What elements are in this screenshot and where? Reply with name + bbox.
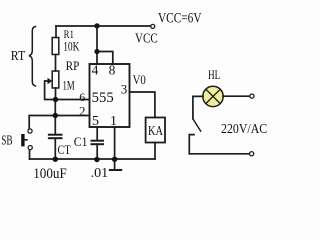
- node VCC terminal: [151, 24, 155, 28]
- wire node A to node B: [54, 100, 56, 116]
- capacitor CT plates: [49, 134, 62, 136]
- wire bottom 220V: [189, 153, 249, 155]
- junction dot C1 rail: [94, 157, 99, 162]
- wire SB to bottom rail: [29, 150, 31, 159]
- wire node B down to CT: [54, 116, 56, 135]
- junction dot pin1 rail: [112, 157, 117, 162]
- wire R1 to RP: [55, 55, 57, 72]
- switch lower contact: [189, 135, 194, 154]
- svg-text:RT: RT: [11, 48, 26, 63]
- svg-text:.01: .01: [91, 166, 109, 181]
- ground: [114, 159, 116, 170]
- junction node B: [53, 113, 58, 118]
- svg-text:V0: V0: [133, 72, 146, 87]
- svg-text:8: 8: [109, 62, 116, 77]
- wire RP wiper arrow tail: [45, 81, 53, 100]
- svg-text:HL: HL: [208, 68, 220, 82]
- svg-text:3: 3: [121, 81, 128, 96]
- svg-text:2: 2: [79, 104, 86, 119]
- wire CT to bottom rail: [54, 138, 56, 159]
- svg-text:VCC=6V: VCC=6V: [158, 11, 202, 27]
- capacitor C1 plates: [92, 140, 104, 142]
- op-amp U1 555 timer box: [90, 64, 130, 127]
- svg-text:6: 6: [79, 90, 85, 104]
- svg-text:VCC: VCC: [135, 32, 158, 47]
- relay coil KA: [146, 118, 165, 143]
- wire SB branch: [29, 116, 55, 129]
- wire lamp to upper terminal: [223, 95, 250, 97]
- wire RP to node A: [55, 88, 57, 100]
- junction dot CT ground rail: [53, 157, 58, 162]
- svg-text:CT: CT: [58, 142, 71, 157]
- svg-text:555: 555: [92, 90, 114, 106]
- wire left branch down to R1: [55, 26, 57, 38]
- wire pin 1 to bottom rail: [114, 127, 116, 159]
- potentiometer RP: [52, 71, 59, 88]
- wire top rail VCC: [56, 25, 151, 27]
- wire bottom rail: [30, 158, 156, 160]
- svg-text:KA: KA: [148, 124, 164, 139]
- lamp HL: [203, 86, 223, 106]
- wire pin 5 to C1: [96, 127, 98, 140]
- brace RT: [29, 27, 36, 87]
- svg-text:10K: 10K: [63, 39, 80, 54]
- wire pin 2: [55, 115, 89, 117]
- pushbutton SB terminals: [28, 129, 32, 133]
- svg-text:4: 4: [92, 62, 99, 77]
- relay contact KA switch blade: [193, 119, 201, 131]
- node 220V lower terminal: [250, 152, 254, 156]
- svg-text:RP: RP: [66, 59, 80, 73]
- wire pin 6: [56, 99, 90, 101]
- wire top rail junction down: [96, 26, 98, 52]
- pushbutton SB actuator: [21, 134, 24, 146]
- wiper arrowhead RP: [48, 78, 53, 84]
- node 220V upper terminal: [250, 94, 254, 98]
- junction dot pin4/8: [94, 49, 99, 54]
- svg-text:220V/AC: 220V/AC: [221, 122, 267, 137]
- wire pin 3 output to KA: [130, 92, 155, 118]
- wire junction to pin 8: [97, 52, 113, 65]
- resistor R1: [52, 38, 59, 55]
- svg-text:1M: 1M: [63, 78, 75, 93]
- wire KA to bottom rail: [154, 143, 156, 160]
- svg-text:SB: SB: [1, 133, 12, 148]
- junction dot top rail: [94, 23, 99, 28]
- wire junction to pin 4: [96, 52, 98, 65]
- svg-text:1: 1: [110, 114, 117, 129]
- wire lamp to switch: [193, 96, 203, 118]
- svg-text:5: 5: [92, 114, 99, 129]
- svg-text:C1: C1: [74, 134, 88, 149]
- junction node A: [53, 97, 58, 102]
- wire C1 to bottom rail: [96, 144, 98, 159]
- svg-text:100uF: 100uF: [33, 166, 67, 182]
